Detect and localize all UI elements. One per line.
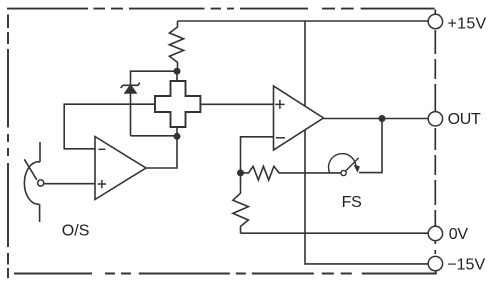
wire: zener bottom to bridge bottom node — [131, 135, 178, 137]
wire: 0V run — [241, 232, 429, 234]
dashed enclosure border: bottom — [14, 271, 436, 274]
wire: U2 inverting input to summing node — [241, 137, 274, 173]
svg-text:0V: 0V — [449, 226, 469, 243]
socket centre contact — [38, 180, 44, 186]
zener diode D1 — [121, 83, 140, 88]
wire: top node into bridge — [176, 71, 178, 81]
input socket/plug symbol — [39, 142, 41, 162]
node: summing junction — [237, 169, 244, 176]
terminal OUT — [428, 112, 442, 126]
FS wiper arm — [345, 158, 358, 171]
terminal -15V — [428, 256, 442, 270]
U2 minus sign — [276, 137, 285, 139]
FS dial arc — [329, 154, 356, 174]
svg-text:−15V: −15V — [447, 257, 485, 274]
wire: output down to FS wiper — [359, 119, 382, 173]
resistor R3 (vertical, to 0V) — [233, 173, 249, 233]
terminal 0V — [428, 226, 442, 240]
svg-text:FS: FS — [342, 194, 362, 211]
node: output junction — [379, 115, 386, 122]
plug pin (diagonal) — [24, 159, 37, 180]
resistor R2 (horizontal) — [241, 166, 342, 180]
node: bridge top junction — [174, 68, 181, 75]
wire: supply drop from rail to -15V run (passes behind U2) — [305, 21, 428, 264]
wire: U1 output up to bridge bottom node — [146, 136, 177, 168]
U2 plus sign — [275, 100, 284, 109]
wire: +15V supply rail — [178, 20, 429, 22]
bridge (cross-shaped 4-arm bridge element) — [155, 81, 200, 127]
dashed enclosure border: left — [7, 15, 9, 279]
wire: bridge bottom to bottom node — [176, 127, 178, 136]
svg-text:O/S: O/S — [62, 222, 90, 239]
op-amp U2 — [274, 86, 324, 150]
U1 plus sign — [98, 180, 106, 188]
dashed enclosure border: top — [7, 8, 435, 10]
terminal +15V — [428, 14, 442, 28]
wire: top node to zener branch — [131, 71, 178, 84]
node: bridge bottom junction — [174, 133, 181, 140]
svg-text:OUT: OUT — [448, 111, 481, 128]
wire: U2 output to OUT terminal — [324, 118, 429, 120]
svg-text:+15V: +15V — [448, 16, 487, 33]
resistor R1 (top, vertical) — [169, 21, 183, 71]
potentiometer FS: wiper contact — [341, 170, 346, 175]
FS arrowhead — [354, 165, 360, 173]
op-amp U1 — [95, 137, 146, 200]
dashed enclosure border: right — [434, 10, 436, 15]
wire: bridge right arm to U2 non-inverting input — [200, 103, 273, 105]
U1 minus sign — [98, 148, 105, 150]
wire: socket to U1 non-inverting input — [44, 183, 95, 185]
wire: bridge left arm to U1 inverting input (feedback) — [64, 104, 155, 149]
